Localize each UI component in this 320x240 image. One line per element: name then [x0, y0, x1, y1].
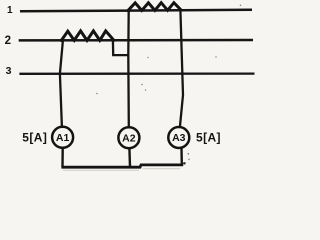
CT winding W2 on line 2 [61, 31, 114, 41]
svg-text:5[A]: 5[A] [196, 131, 221, 145]
ammeter A2 [118, 127, 139, 148]
svg-text:A3: A3 [172, 132, 186, 144]
svg-text:5[A]: 5[A] [22, 131, 47, 145]
ammeter A3 [168, 127, 189, 148]
wire A3 bottom lead [180, 148, 183, 165]
wire line 3 (phase 3) [19, 72, 254, 75]
svg-text:3: 3 [6, 65, 12, 77]
svg-text:A2: A2 [122, 132, 136, 144]
wire from W2 left end down to ammeter A1 [60, 41, 63, 127]
wire A1 bottom lead [61, 148, 64, 167]
CT winding W1 on line 1 [128, 3, 181, 11]
wire step from W2 right end to node on A2 drop [113, 40, 129, 55]
svg-text:2: 2 [5, 35, 11, 47]
wire from W1 right end down to ammeter A3 [180, 10, 183, 127]
wire A2 bottom lead [128, 148, 131, 167]
svg-text:1: 1 [7, 5, 13, 16]
wire line 1 (phase 1) [20, 10, 252, 12]
wire line 2 (phase 2) [19, 39, 253, 42]
wire from W1 left end down to ammeter A2 [127, 11, 130, 128]
ammeter A1 [52, 127, 73, 148]
common return bus wire [61, 165, 183, 167]
svg-text:A1: A1 [56, 132, 70, 144]
